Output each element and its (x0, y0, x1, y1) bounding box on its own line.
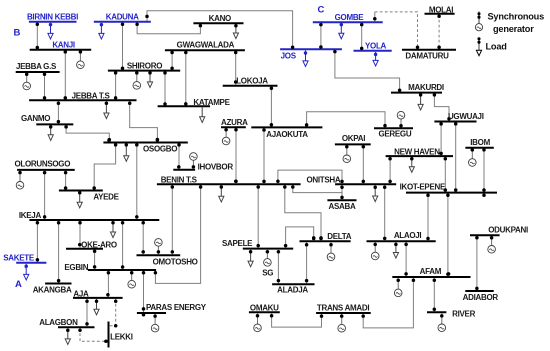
load at JEBBA T.S (104, 101, 109, 118)
svg-text:PARAS ENERGY: PARAS ENERGY (146, 303, 207, 312)
svg-text:GEREGU: GEREGU (378, 130, 411, 139)
load at BENIN T.S (219, 185, 224, 202)
bus ADIABOR (465, 290, 493, 292)
generator at IBOM (469, 149, 477, 167)
wire AFAM-RIVER (433, 278, 435, 312)
svg-text:SAPELE: SAPELE (222, 239, 253, 248)
wire OSOGBO-AYEDE (94, 143, 115, 189)
wire AJAOKUTA-BENIN T.S (263, 128, 265, 183)
bus IBOM (465, 147, 493, 149)
generator at GEREGU (397, 111, 405, 127)
svg-text:TRANS AMADI: TRANS AMADI (317, 303, 369, 312)
load at AJA (94, 299, 99, 315)
bus IKEJA (29, 219, 159, 221)
wire OLORUNSOGO-AYEDE (65, 171, 67, 190)
dashed wire GOMBE-DAMATURU (375, 12, 418, 49)
wire ODUKPANI-ADIABOR (476, 236, 478, 290)
bus OKE-ARO (66, 248, 103, 250)
svg-text:Synchronous: Synchronous (488, 12, 545, 22)
wire EGBIN-PARAS ENERGY (143, 271, 145, 312)
load at GANMO (48, 126, 53, 141)
bus OMOTOSHO (137, 254, 181, 256)
wire EGBIN-AJA (107, 271, 109, 297)
svg-text:RIVER: RIVER (452, 310, 475, 319)
bus OKPAI (335, 143, 371, 145)
wire GWAGWALADA-SHIRORO (171, 51, 173, 69)
svg-text:DELTA: DELTA (327, 232, 351, 241)
bus OMAKU (249, 311, 280, 313)
generator at OMOTOSHO (155, 239, 163, 255)
bus ALAOJI (367, 240, 436, 242)
bus ODUKPANI (470, 234, 500, 236)
generator at ODUKPANI (488, 236, 496, 253)
bus AZURA (221, 126, 246, 128)
wire IKEJA-OKE-ARO (79, 221, 81, 248)
bus AKANGBA (45, 283, 71, 285)
generator at KANJI (77, 52, 85, 69)
load at BIRNIN KEBBI (48, 23, 53, 39)
bus RIVER (427, 311, 446, 313)
bus BIRNIN KEBBI (29, 21, 77, 23)
svg-text:GANMO: GANMO (21, 114, 50, 123)
svg-text:MOLAI: MOLAI (429, 5, 453, 14)
wire GOMBE-YOLA (361, 23, 363, 50)
wire AJA-ALAGBON (86, 299, 88, 327)
load at NEW HAVEN (409, 157, 414, 172)
generator at ALAOJI (371, 242, 379, 259)
wire IKEJA-OMOTOSHO (142, 221, 144, 254)
wire GOMBE dashed-tie stub (374, 12, 376, 22)
wire JEBBA T.S-GANMO (57, 101, 59, 123)
wire BIRNIN KEBBI-KANJI (36, 23, 38, 49)
wire JEBBA G.S-JEBBA T.S (44, 73, 46, 100)
bus NEW HAVEN (386, 155, 453, 157)
bus TRANS AMADI (316, 312, 371, 314)
generator SG at SAPELE (264, 250, 272, 267)
svg-text:OMAKU: OMAKU (250, 304, 279, 313)
load at ALAGBON (65, 328, 70, 344)
svg-text:SHIRORO: SHIRORO (127, 61, 162, 70)
bus MAKURDI (391, 92, 442, 94)
wire SAPELE-DELTA (286, 227, 314, 248)
generator at SHIRORO (133, 72, 141, 90)
svg-text:OMOTOSHO: OMOTOSHO (153, 257, 198, 266)
wire KANJI-JEBBA T.S (64, 51, 66, 100)
svg-text:LEKKI: LEKKI (110, 333, 133, 342)
wire IKOT-EPENE-AFAM (447, 194, 449, 277)
svg-text:KANJI: KANJI (52, 40, 75, 49)
wire JOS-MAKURDI (335, 50, 400, 91)
wire KADUNA-SHIRORO (122, 23, 124, 70)
bus ONITSHA (335, 183, 396, 185)
bus GEREGU (374, 127, 413, 129)
svg-text:KADUNA: KADUNA (106, 13, 139, 22)
load at IKEJA (110, 221, 115, 238)
wire SHIRORO-KATAMPE (164, 72, 166, 106)
svg-text:JEBBA T.S: JEBBA T.S (72, 92, 111, 101)
wire ALAOJI-AFAM (405, 242, 407, 276)
wire UGWUAJI-NEW HAVEN (440, 122, 442, 155)
load at AYEDE (77, 192, 82, 208)
load at SAPELE (248, 250, 253, 267)
svg-text:GOMBE: GOMBE (335, 13, 365, 22)
svg-text:B: B (14, 28, 21, 39)
bus DELTA (300, 240, 351, 242)
wire OKE-ARO-EGBIN (94, 250, 96, 270)
generator at RIVER (438, 313, 446, 331)
bus IHOVBOR (173, 169, 195, 171)
bus DAMATURU (402, 49, 456, 51)
wire BENIN T.S-DELTA (285, 185, 321, 240)
load at KATAMPE (200, 107, 205, 122)
generator at IHOVBOR (190, 153, 198, 169)
legend load icon (476, 37, 481, 55)
wire OSOGBO-IKEJA (136, 143, 138, 219)
bus SAPELE (243, 248, 293, 250)
bus EGBIN (88, 269, 156, 271)
bus YOLA (354, 50, 392, 52)
bus AFAM (392, 276, 470, 278)
svg-text:KANO: KANO (209, 14, 231, 23)
generator at EGBIN (128, 271, 136, 288)
svg-text:AJAOKUTA: AJAOKUTA (266, 130, 308, 139)
load at KADUNA (99, 23, 104, 39)
wire KADUNA-JOS (147, 11, 293, 49)
load at SHIRORO (147, 72, 152, 88)
bus ALADJA (272, 283, 314, 285)
svg-text:JOS: JOS (281, 52, 297, 61)
bus KADUNA (94, 21, 151, 23)
svg-text:NEW HAVEN: NEW HAVEN (394, 148, 440, 157)
wire MAKURDI-UGWUAJI (434, 94, 449, 121)
svg-text:AFAM: AFAM (420, 267, 442, 276)
wire GWAGWALADA-KATAMPE (185, 51, 187, 105)
wire GANMO-OSOGBO (66, 125, 109, 141)
svg-text:IKEJA: IKEJA (19, 211, 42, 220)
wire OMAKU-TRANS AMADI (272, 313, 322, 327)
svg-text:BENIN T.S: BENIN T.S (161, 176, 198, 185)
bus MOLAI (425, 13, 455, 15)
wire IKEJA-AKANGBA (58, 221, 60, 283)
generator at DELTA (327, 242, 335, 260)
bus KANO (193, 22, 243, 24)
bus GOMBE (313, 21, 383, 23)
wire SAPELE-ALADJA (277, 250, 279, 283)
svg-text:ALADJA: ALADJA (277, 286, 308, 295)
svg-text:generator: generator (493, 24, 534, 34)
wire BENIN T.S-EGBIN (155, 185, 200, 283)
generator at OLORUNSOGO (16, 171, 24, 189)
svg-text:BIRNIN KEBBI: BIRNIN KEBBI (27, 13, 78, 22)
svg-text:ALAOJI: ALAOJI (394, 231, 422, 240)
generator at OMAKU (254, 313, 262, 331)
bus KANJI (30, 49, 91, 51)
bus AJA (73, 297, 123, 299)
wire NEW HAVEN-IKOT-EPENE (444, 157, 446, 192)
svg-text:AYEDE: AYEDE (93, 193, 119, 202)
svg-text:MAKURDI: MAKURDI (408, 83, 444, 92)
svg-text:Load: Load (486, 41, 507, 51)
generator at JEBBA G.S (23, 73, 31, 90)
svg-text:IHOVBOR: IHOVBOR (198, 162, 234, 171)
svg-text:ONITSHA: ONITSHA (306, 176, 340, 185)
bus JOS (280, 48, 342, 50)
bus PARAS ENERGY (137, 312, 166, 314)
svg-text:OKE-ARO: OKE-ARO (81, 240, 117, 249)
wire UGWUAJI-IKOT-EPENE (455, 122, 457, 191)
svg-text:ODUKPANI: ODUKPANI (488, 225, 528, 234)
bus SAKETE (16, 262, 46, 264)
load at ONITSHA (373, 185, 378, 201)
svg-text:YOLA: YOLA (365, 41, 387, 50)
svg-text:IKOT-EPENE: IKOT-EPENE (400, 183, 446, 192)
svg-text:SAKETE: SAKETE (3, 253, 35, 262)
load at MAKURDI (418, 94, 423, 110)
bus OSOGBO (103, 142, 187, 144)
load at SAKETE (24, 264, 29, 280)
load at JOS (303, 50, 308, 66)
svg-text:ASABA: ASABA (329, 202, 356, 211)
blue junction dots (24, 23, 377, 268)
wire ONITSHA-ASABA (341, 185, 343, 199)
svg-text:JEBBA G.S: JEBBA G.S (16, 62, 57, 71)
svg-text:EGBIN: EGBIN (64, 263, 88, 272)
wire AZURA-BENIN T.S (235, 128, 237, 183)
load at OSOGBO (124, 144, 129, 162)
bus GWAGWALADA (165, 49, 245, 51)
svg-text:ALAGBON: ALAGBON (39, 318, 78, 327)
generator at AZURA (222, 128, 230, 145)
bus SHIRORO (108, 70, 180, 72)
bus JEBBA G.S (16, 71, 60, 73)
bus OLORUNSOGO (17, 169, 75, 171)
svg-text:GWAGWALADA: GWAGWALADA (177, 41, 235, 50)
bus AJAOKUTA (251, 126, 322, 128)
bus BENIN T.S (157, 183, 301, 185)
load at GOMBE (339, 23, 344, 39)
dashed wire MOLAI-DAMATURU (438, 15, 440, 49)
wire BENIN T.S-ONITSHA loop (278, 170, 342, 183)
wire OKPAI-ONITSHA (362, 145, 364, 183)
bus ASABA (327, 199, 356, 201)
wire BENIN T.S-SAPELE (257, 185, 259, 248)
svg-text:A: A (15, 279, 22, 290)
bus UGWUAJI (434, 121, 476, 123)
generator at AFAM (394, 278, 402, 297)
generator at TRANS AMADI (338, 314, 346, 332)
svg-text:DAMATURU: DAMATURU (405, 51, 449, 60)
svg-text:AKANGBA: AKANGBA (33, 286, 72, 295)
wire SHIRORO-JEBBA T.S (115, 72, 117, 100)
svg-text:UGWUAJI: UGWUAJI (448, 112, 484, 121)
wire JEBBA T.S-OSOGBO (130, 101, 158, 141)
wire OSOGBO-IHOVBOR (178, 143, 180, 169)
svg-text:ADIABOR: ADIABOR (463, 293, 499, 302)
bus LOKOJA (223, 85, 278, 87)
wire DELTA-ALADJA (306, 242, 308, 283)
svg-text:OSOGBO: OSOGBO (143, 144, 177, 153)
wire NEW HAVEN-ONITSHA (389, 157, 391, 183)
svg-text:OKPAI: OKPAI (342, 134, 365, 143)
wire OLORUNSOGO-IKEJA (44, 171, 46, 219)
bus ALAGBON (58, 326, 95, 328)
svg-text:C: C (318, 5, 325, 16)
bus JEBBA T.S (29, 99, 136, 101)
bus AYEDE (59, 190, 103, 192)
wire LOKOJA-AJAOKUTA (270, 87, 272, 127)
svg-text:IBOM: IBOM (470, 138, 490, 147)
wire ONITSHA-ALAOJI (384, 185, 386, 240)
legend synchronous generator icon (475, 12, 482, 31)
bus GANMO (36, 123, 73, 125)
wire AFAM-TRANS AMADI (363, 278, 413, 328)
wire BENIN T.S-OMOTOSHO (171, 185, 173, 254)
svg-text:OLORUNSOGO: OLORUNSOGO (14, 160, 70, 169)
wire AJAOKUTA-GEREGU (307, 112, 385, 128)
wire IBOM-IKOT-EPENE (483, 149, 485, 192)
wire KADUNA-KANO (137, 23, 200, 34)
svg-text:AJA: AJA (73, 290, 89, 299)
generator at OKPAI (343, 145, 351, 162)
wire GWAGWALADA-LOKOJA (235, 51, 237, 85)
svg-text:SG: SG (262, 269, 273, 278)
bus KATAMPE (158, 105, 210, 107)
load at ALAOJI (393, 242, 398, 258)
bus IKOT-EPENE (406, 192, 497, 194)
wire BENIN T.S-ASABA (293, 185, 342, 193)
bus LEKKI (vertical) (108, 322, 110, 348)
svg-text:AZURA: AZURA (221, 118, 248, 127)
dashed wire AJA-LEKKI (109, 299, 116, 326)
wire GOMBE-JOS (320, 23, 322, 48)
load at YOLA (373, 52, 378, 66)
dashed wire ALAGBON-LEKKI (80, 328, 108, 341)
svg-text:LOKOJA: LOKOJA (236, 77, 268, 86)
wire IKEJA-EGBIN (122, 221, 124, 269)
wire IKOT-EPENE-ALAOJI (427, 194, 429, 241)
load at KANO (233, 24, 238, 38)
generator at PARAS ENERGY (151, 314, 159, 332)
svg-text:KATAMPE: KATAMPE (193, 98, 230, 107)
wire IKEJA-SAKETE (36, 221, 38, 262)
